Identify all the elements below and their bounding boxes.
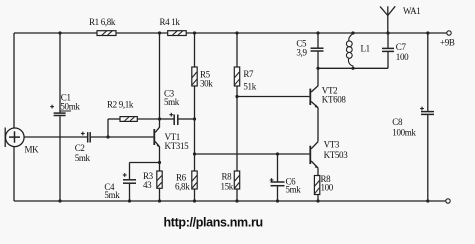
wire emitter to C4 xyxy=(130,162,160,164)
svg-text:R1 6,8k: R1 6,8k xyxy=(89,17,116,27)
resistor R2 xyxy=(107,99,160,137)
svg-text:VT3: VT3 xyxy=(324,140,340,150)
wire VT3 base xyxy=(195,153,310,155)
node bottom rail x277.5 xyxy=(276,199,279,202)
svg-text:15k: 15k xyxy=(221,182,234,192)
terminal bottom right xyxy=(446,199,450,203)
svg-text:C8: C8 xyxy=(392,117,403,127)
svg-text:C7: C7 xyxy=(396,42,407,52)
svg-text:6,8k: 6,8k xyxy=(175,181,190,191)
node bottom rail x427.8 xyxy=(426,199,429,202)
svg-text:30k: 30k xyxy=(200,79,213,89)
capacitor C3 xyxy=(160,88,195,125)
inductor L1 xyxy=(346,34,369,69)
capacitor C5 xyxy=(296,33,323,68)
resistor R3 xyxy=(143,171,162,201)
wire left branch bottom xyxy=(13,147,15,202)
wire VT2 emitter to VT3 collector xyxy=(317,108,319,141)
antenna WA1 xyxy=(380,6,420,33)
resistor R6 xyxy=(175,171,197,201)
svg-text:5mk: 5mk xyxy=(75,153,91,163)
svg-text:WA1: WA1 xyxy=(403,6,420,16)
node bottom rail x318 xyxy=(316,199,319,202)
node top rail x353 xyxy=(351,31,354,34)
node C3/R5 junction xyxy=(193,117,196,120)
svg-text:5mk: 5mk xyxy=(104,190,120,200)
resistor R8 100 xyxy=(314,174,333,201)
node top rail x318 xyxy=(316,31,319,34)
svg-text:http://plans.nm.ru: http://plans.nm.ru xyxy=(164,216,263,230)
svg-text:R7: R7 xyxy=(243,69,254,79)
svg-text:100mk: 100mk xyxy=(392,127,416,137)
node L1 bottom xyxy=(351,67,354,70)
svg-text:KT315: KT315 xyxy=(165,141,190,151)
node bottom rail x194.5 xyxy=(193,199,196,202)
resistor R8 15k xyxy=(221,171,240,201)
wire VT3 emitter xyxy=(317,168,319,175)
transistor VT2 KT608 xyxy=(309,85,346,108)
transistor VT3 KT503 xyxy=(309,140,348,169)
svg-text:100: 100 xyxy=(321,182,334,192)
svg-text:3,9: 3,9 xyxy=(296,48,307,58)
wire VT1 collector branch xyxy=(159,33,161,127)
wire R5 R6 branch xyxy=(194,33,196,67)
node VT1 collector / C3 / R2 xyxy=(158,117,161,120)
capacitor C6 xyxy=(270,154,302,201)
transistor VT1 KT315 xyxy=(153,127,189,151)
wire bottom rail xyxy=(14,200,446,202)
svg-text:R8: R8 xyxy=(222,172,233,182)
wire tank bottom xyxy=(318,67,388,69)
svg-text:5mk: 5mk xyxy=(286,184,302,194)
svg-text:51k: 51k xyxy=(243,82,256,92)
node top rail x60 xyxy=(58,31,61,34)
node C6/base wire junction xyxy=(276,152,279,155)
svg-text:5mk: 5mk xyxy=(164,97,180,107)
node R7/VT2 base junction xyxy=(235,95,238,98)
svg-text:KT503: KT503 xyxy=(324,150,349,160)
wire mic output xyxy=(24,136,87,138)
wire R7 R8 branch xyxy=(236,33,238,67)
wire VT1 emitter xyxy=(159,147,161,171)
wire R5 bottom to R6 top xyxy=(194,86,196,171)
node R2/C2 junction xyxy=(106,135,109,138)
node R6/base wire junction xyxy=(193,152,196,155)
node VT1 emitter junction xyxy=(158,161,161,164)
node top rail x159.5 xyxy=(158,31,161,34)
svg-text:C2: C2 xyxy=(75,143,85,153)
node bottom rail x60 xyxy=(58,199,61,202)
wire VT2 base xyxy=(237,96,309,98)
svg-text:+9B: +9B xyxy=(440,37,455,47)
svg-text:MK: MK xyxy=(25,145,40,155)
resistor R5 xyxy=(192,67,214,89)
capacitor C8 xyxy=(392,33,434,201)
svg-text:L1: L1 xyxy=(361,44,370,54)
svg-text:43: 43 xyxy=(143,180,152,190)
capacitor C4 xyxy=(104,163,136,202)
wire R7 bottom to R8 top xyxy=(236,86,238,171)
wire VT2 collector xyxy=(317,68,319,86)
node top rail x237 xyxy=(235,31,238,34)
node top rail x194.5 xyxy=(193,31,196,34)
node bottom rail x129.5 xyxy=(128,199,131,202)
node bottom rail x159.5 xyxy=(158,199,161,202)
capacitor C1 xyxy=(50,33,80,201)
svg-text:100: 100 xyxy=(396,52,409,62)
terminal +9V xyxy=(440,31,455,48)
node tank/VT2 collector xyxy=(316,67,319,70)
node top rail x388 xyxy=(386,31,389,34)
svg-text:50mk: 50mk xyxy=(60,102,80,112)
capacitor C7 xyxy=(382,33,409,68)
microphone MK xyxy=(5,128,39,155)
wire left branch top xyxy=(13,33,15,129)
wire top rail xyxy=(14,32,447,34)
wire C2 to VT1 base xyxy=(91,136,153,138)
resistor R7 xyxy=(234,67,256,92)
svg-text:R2 9,1k: R2 9,1k xyxy=(107,99,134,109)
node top rail x427.8 xyxy=(426,31,429,34)
node bottom rail x237 xyxy=(235,199,238,202)
svg-text:KT608: KT608 xyxy=(322,94,347,104)
svg-text:R4 1k: R4 1k xyxy=(160,17,181,27)
resistor R1 xyxy=(89,17,116,36)
resistor R4 xyxy=(160,17,187,36)
capacitor C2 xyxy=(75,132,91,163)
